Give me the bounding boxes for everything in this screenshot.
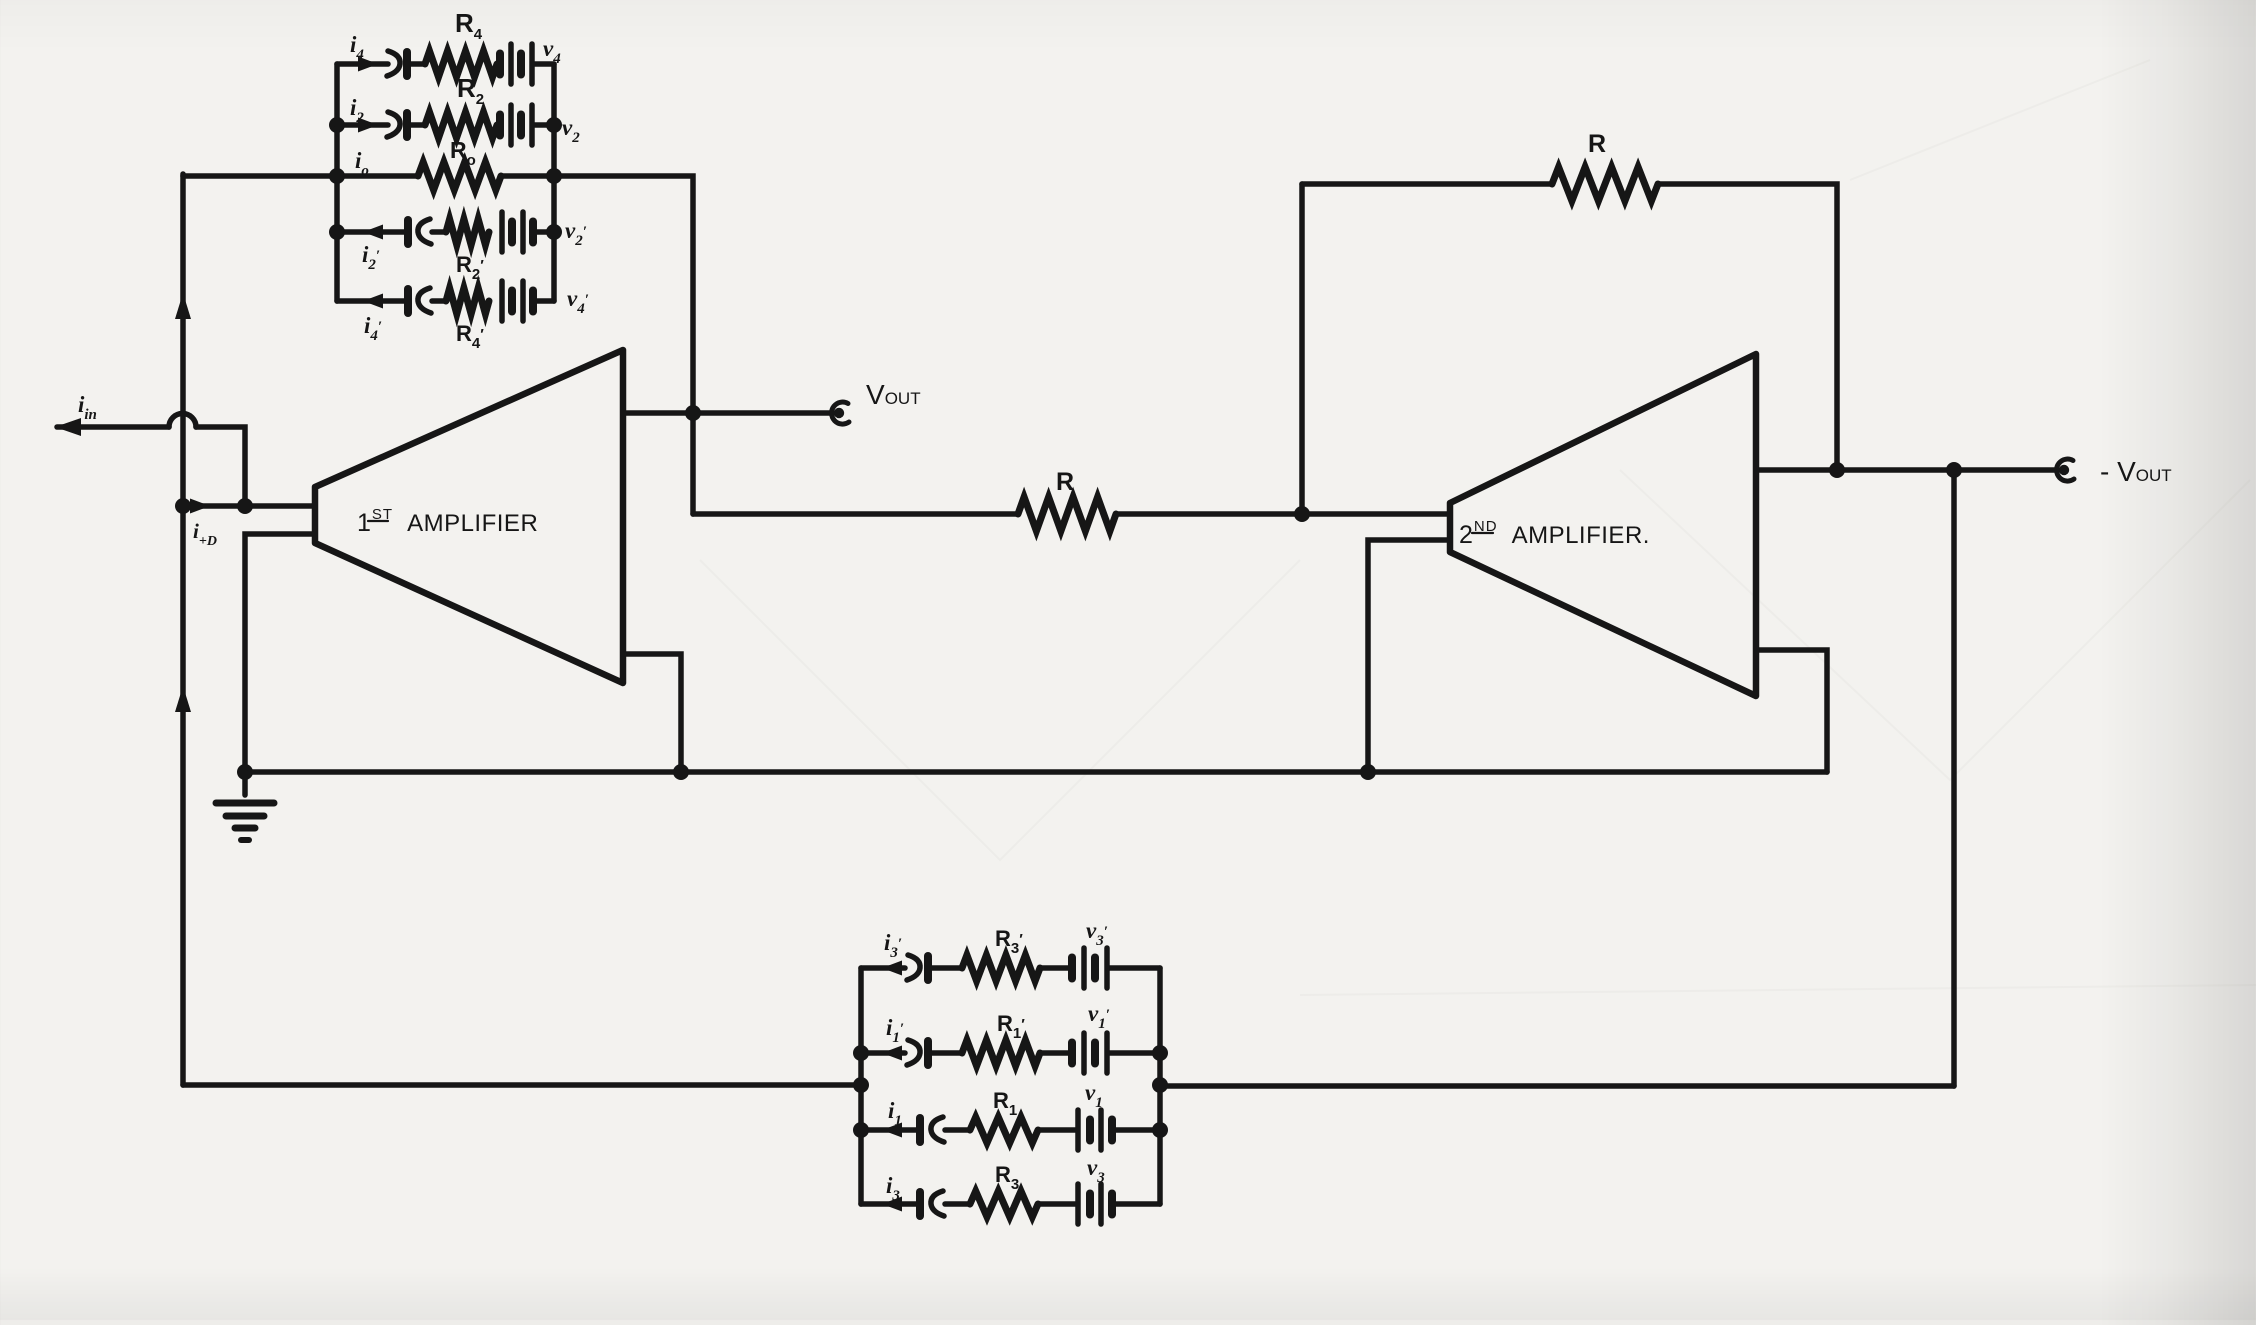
label i1' — [886, 1015, 904, 1046]
current arrow i4' — [363, 294, 383, 309]
svg-text:v1′: v1′ — [1088, 1001, 1110, 1032]
node left rail row2 — [329, 117, 345, 133]
resistor R3 — [970, 1191, 1038, 1217]
wire top network right rail — [551, 64, 557, 301]
svg-text:v1: v1 — [1085, 1080, 1103, 1111]
op-amp 2nd amplifier triangle — [1450, 354, 1756, 696]
svg-text:i4′: i4′ — [364, 313, 382, 344]
label R0 — [450, 137, 476, 169]
diode i3 (reversed) — [920, 1191, 944, 1216]
terminal -Vout — [2057, 459, 2074, 481]
wire branch i4 right — [534, 61, 554, 67]
label Vout — [866, 379, 921, 410]
node bot right rail main — [1152, 1077, 1168, 1093]
svg-text:- VOUT: - VOUT — [2100, 456, 2172, 487]
resistor R0 — [418, 162, 501, 190]
wire middle R row left — [693, 511, 1018, 517]
resistor R4' — [446, 288, 489, 314]
diode i4' (reversed) — [408, 288, 431, 313]
wire amplifier2 output — [1756, 467, 2058, 473]
diode i2 — [387, 112, 407, 137]
label i3 — [886, 1173, 900, 1204]
svg-text:R1′: R1′ — [997, 1011, 1025, 1042]
label v4 — [543, 36, 561, 67]
current arrow i1' — [882, 1046, 902, 1061]
diode i1 (reversed) — [920, 1117, 944, 1142]
wire branch i1' mid — [928, 1050, 962, 1056]
node right rail row3 — [546, 168, 562, 184]
label -Vout — [2100, 456, 2172, 487]
label i_D — [193, 519, 217, 549]
wire branch i1' left — [861, 1050, 905, 1056]
wire branch i1 mid2 — [1038, 1127, 1076, 1133]
wire feedback top right — [1658, 184, 1837, 470]
svg-text:R4′: R4′ — [456, 321, 484, 352]
svg-text:i2: i2 — [350, 95, 364, 126]
node right rail row2 — [546, 117, 562, 133]
label v1 — [1085, 1080, 1103, 1111]
terminal Vout — [832, 402, 849, 424]
node bot left rail b3 — [853, 1122, 869, 1138]
resistor R1' — [962, 1040, 1040, 1066]
wire right return vertical — [1951, 470, 1957, 1086]
wire branch i2 left — [337, 122, 388, 128]
label R2' — [456, 252, 484, 283]
wire amplifier1 output — [623, 410, 833, 416]
current arrow i_in — [55, 418, 81, 436]
faint paper marks — [700, 60, 2256, 995]
current arrow i4 — [358, 57, 378, 72]
wire amplifier1 notch feedback — [623, 654, 681, 772]
label R4 — [455, 8, 483, 43]
current arrow i3' — [882, 961, 902, 976]
node input junction on vertical — [175, 498, 191, 514]
node input junction drop — [237, 498, 253, 514]
svg-text:i1′: i1′ — [886, 1015, 904, 1046]
node left rail row3 — [329, 168, 345, 184]
battery v3 — [1078, 1184, 1112, 1224]
resistor R2 — [425, 112, 497, 138]
node bot right rail b2 — [1152, 1045, 1168, 1061]
wire branch i3 right — [1113, 1201, 1160, 1207]
wire branch i2' right — [535, 229, 554, 235]
svg-text:i2′: i2′ — [362, 242, 380, 273]
label R feedback — [1588, 130, 1606, 158]
battery v4 — [500, 44, 532, 84]
svg-text:v3: v3 — [1087, 1155, 1105, 1186]
wire amplifier2 notch feedback — [1756, 650, 1827, 772]
label i2' — [362, 242, 380, 273]
label i4' — [364, 313, 382, 344]
current arrow i2' — [363, 225, 383, 240]
node ground stub junction — [237, 764, 253, 780]
wire R0 row from main left vertical to network — [183, 173, 337, 179]
wire amplifier1 top input lead — [183, 503, 315, 509]
label v2' — [565, 218, 587, 249]
node junction Vout drop x output — [685, 405, 701, 421]
wire branch i1 left — [861, 1127, 918, 1133]
svg-text:i+D: i+D — [193, 519, 217, 549]
wire branch i1' right — [1108, 1050, 1160, 1056]
resistor R feedback — [1552, 167, 1658, 201]
wire amplifier1 bottom input lead to ground — [245, 534, 315, 772]
label R4' — [456, 321, 484, 352]
svg-text:v3′: v3′ — [1086, 918, 1108, 949]
wire branch i1' mid2 — [1040, 1050, 1070, 1056]
label 2nd amplifier — [1459, 518, 1650, 549]
label i4 — [350, 32, 364, 63]
node right rail row4 — [546, 224, 562, 240]
wire R0 row right + drop to Vout node — [501, 176, 693, 514]
wire amplifier2 bottom input lead — [1368, 540, 1450, 772]
battery v3' — [1072, 948, 1107, 988]
wire branch i3 left — [861, 1201, 918, 1207]
label 1st amplifier — [357, 506, 538, 537]
node bot left rail main — [853, 1077, 869, 1093]
ground — [216, 772, 274, 840]
label v3 — [1087, 1155, 1105, 1186]
wire branch i1 right — [1113, 1127, 1160, 1133]
wire i_in input with hop over vertical — [57, 414, 245, 507]
label i0 — [355, 148, 369, 179]
wire branch i4' right — [535, 298, 554, 304]
diode i4 — [387, 51, 407, 76]
wire branch i3 mid — [945, 1201, 970, 1207]
node bot right rail b3 — [1152, 1122, 1168, 1138]
svg-text:v4′: v4′ — [567, 286, 589, 317]
diode i3' — [907, 955, 928, 980]
battery v2' — [502, 212, 533, 252]
label v4' — [567, 286, 589, 317]
wire branch i3' right — [1108, 965, 1160, 971]
label R2 — [457, 73, 484, 108]
svg-text:i4: i4 — [350, 32, 364, 63]
diode i1' — [907, 1040, 928, 1065]
wire bottom network right rail — [1157, 968, 1163, 1204]
svg-text:R: R — [1056, 468, 1074, 496]
svg-text:i1: i1 — [888, 1098, 902, 1129]
wire bottom return — [1160, 1083, 1954, 1089]
label R3' — [995, 926, 1023, 957]
wire branch i4 mid — [407, 61, 425, 67]
battery v4' — [502, 281, 533, 321]
wire branch i4 left — [337, 61, 388, 67]
label R3 — [995, 1162, 1019, 1193]
label R middle — [1056, 468, 1074, 496]
resistor R1 — [970, 1117, 1038, 1143]
current arrow i_D — [190, 499, 210, 514]
wire branch i3' left — [861, 965, 905, 971]
svg-text:R2: R2 — [457, 73, 484, 108]
wire middle R row right — [1116, 511, 1450, 517]
battery v2 — [500, 105, 532, 145]
label v3' — [1086, 918, 1108, 949]
node amp2 lead ground junction — [1360, 764, 1376, 780]
label v1' — [1088, 1001, 1110, 1032]
wire bottom row to network — [183, 1082, 861, 1088]
current arrow i3 — [882, 1197, 902, 1212]
wire feedback top left — [1302, 181, 1552, 187]
label i1 — [888, 1098, 902, 1129]
op-amp 1st amplifier triangle — [315, 350, 623, 683]
diode i2' (reversed) — [408, 219, 431, 244]
svg-text:VOUT: VOUT — [866, 379, 921, 410]
wire main left vertical — [180, 174, 186, 1085]
node output right junction — [1946, 462, 1962, 478]
node left rail row4 — [329, 224, 345, 240]
label i2 — [350, 95, 364, 126]
wire branch i2' mid — [432, 229, 446, 235]
wire top network left rail — [334, 64, 340, 301]
resistor R middle — [1018, 497, 1116, 531]
wire branch i3' mid — [928, 965, 962, 971]
wire branch i2 right — [534, 122, 554, 128]
label R1' — [997, 1011, 1025, 1042]
current arrow up lower — [175, 686, 191, 712]
node notch-ground junction — [673, 764, 689, 780]
node feedback-output junction — [1829, 462, 1845, 478]
label v2 — [562, 115, 580, 146]
svg-text:i3′: i3′ — [884, 930, 902, 961]
wire branch i1 mid — [945, 1127, 970, 1133]
label i_in — [78, 392, 97, 423]
wire branch i3' mid2 — [1040, 965, 1070, 971]
wire bottom network left rail — [858, 968, 864, 1204]
svg-text:R2′: R2′ — [456, 252, 484, 283]
battery v1' — [1072, 1033, 1107, 1073]
svg-text:R3′: R3′ — [995, 926, 1023, 957]
wire branch i4' left — [337, 298, 406, 304]
resistor R2' — [446, 219, 489, 245]
battery v1 — [1078, 1110, 1112, 1150]
svg-text:v2: v2 — [562, 115, 580, 146]
wire ground row — [245, 769, 1827, 775]
current arrow i2 — [358, 118, 378, 133]
resistor R3' — [962, 955, 1040, 981]
resistor R4 — [425, 51, 497, 77]
svg-text:v2′: v2′ — [565, 218, 587, 249]
node feedback tap — [1294, 506, 1310, 522]
wire branch i2 mid — [407, 122, 425, 128]
wire branch i2' left — [337, 229, 406, 235]
current arrow up upper — [175, 293, 191, 319]
label i3' — [884, 930, 902, 961]
wire branch i4' mid — [432, 298, 446, 304]
svg-text:i3: i3 — [886, 1173, 900, 1204]
wire feedback loop left vertical — [1299, 184, 1305, 514]
wire R0 row inside network left — [337, 173, 418, 179]
svg-text:R: R — [1588, 130, 1606, 158]
node bot left rail b2 — [853, 1045, 869, 1061]
current arrow i1 — [882, 1123, 902, 1138]
wire branch i3 mid2 — [1038, 1201, 1076, 1207]
label R1 — [993, 1088, 1017, 1119]
svg-text:R4: R4 — [455, 8, 483, 43]
